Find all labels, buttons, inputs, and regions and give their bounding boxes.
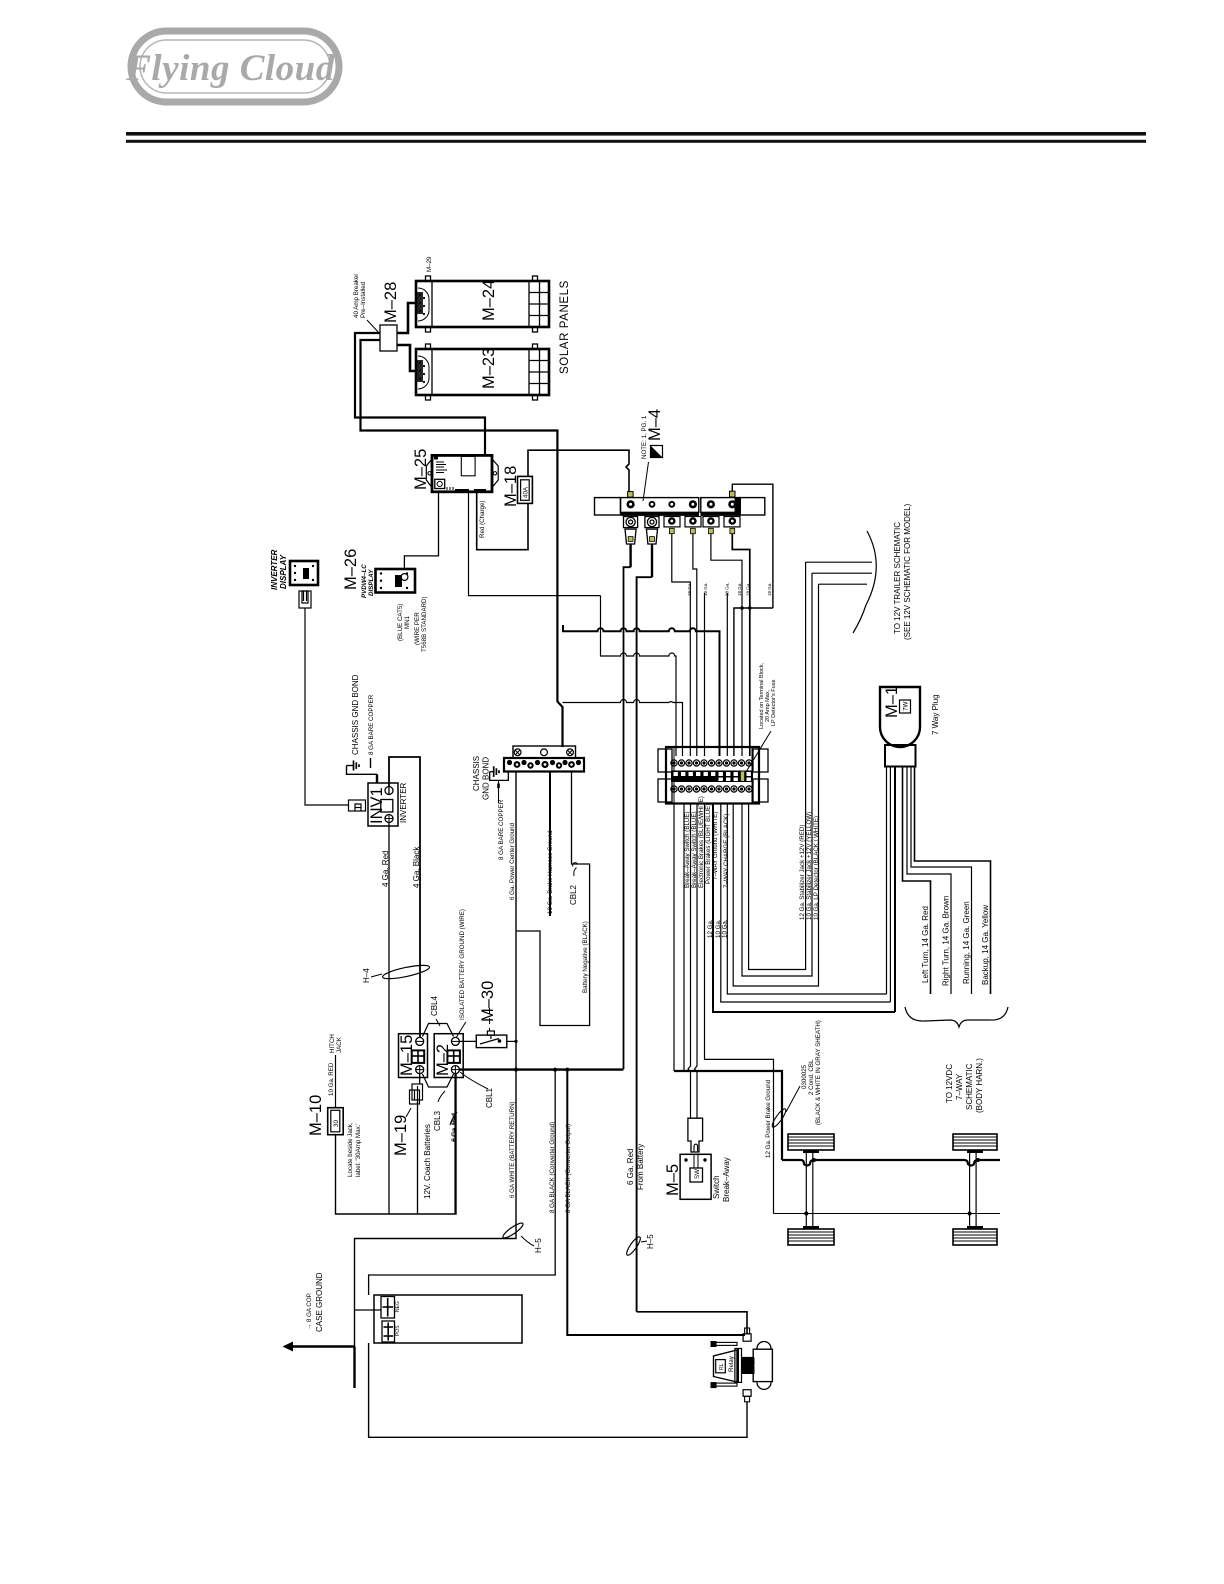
svg-text:Right Turn, 14 Ga. Brown: Right Turn, 14 Ga. Brown — [942, 896, 951, 986]
svg-text:M–19: M–19 — [392, 1115, 410, 1156]
small terminal below stud 4 — [685, 517, 701, 534]
label Locate beside Jack label 30Amp Max — [347, 1122, 362, 1177]
svg-text:Break–Away Switch (BLUE): Break–Away Switch (BLUE) — [691, 811, 698, 888]
wire col 727 to U3 — [727, 804, 886, 995]
wire breakaway pair right — [695, 804, 698, 1119]
label 0300025 2 Cond CBL — [786, 1020, 822, 1125]
wire brake ground thick — [674, 1071, 782, 1160]
wire stabilizer red to trailer — [806, 561, 872, 563]
svg-text:SCHEMATIC: SCHEMATIC — [965, 1063, 974, 1110]
svg-text:Left Turn, 14 Ga. Red: Left Turn, 14 Ga. Red — [921, 906, 930, 983]
wire 7way ground col — [705, 804, 774, 1214]
label Switch Break-Away — [712, 1157, 731, 1202]
svg-text:Pre–Installed: Pre–Installed — [360, 281, 367, 318]
svg-text:12 Ga. Stabilizer Jack +12V: 12 Ga. Stabilizer Jack +12V (RED) — [799, 825, 806, 920]
wire M-1 backup — [915, 767, 991, 995]
svg-text:4 Ga. Black: 4 Ga. Black — [412, 846, 421, 888]
wire stud6 up and over to right drop — [732, 484, 773, 608]
svg-text:M–26: M–26 — [342, 549, 360, 590]
label 6 Ga. Red From Battery — [626, 1144, 645, 1190]
wire INV1 positive 4ga red down — [388, 823, 390, 1215]
wire col 733 to U4 — [733, 584, 818, 986]
battery lug below stud 1 — [624, 517, 638, 545]
wire neg to return col — [355, 1309, 382, 1311]
svg-text:Battery Negative (BLACK): Battery Negative (BLACK) — [582, 921, 589, 993]
svg-text:CBL1: CBL1 — [485, 1087, 494, 1108]
svg-text:M–1: M–1 — [883, 686, 901, 718]
svg-text:CBL4: CBL4 — [430, 995, 439, 1016]
svg-text:CBL2: CBL2 — [569, 884, 578, 905]
svg-text:CHASSIS: CHASSIS — [472, 756, 481, 791]
svg-text:TO 12VDC: TO 12VDC — [945, 1064, 954, 1103]
junction dot brake bus left — [812, 1158, 816, 1162]
wire bus to chassis ground — [490, 771, 509, 781]
inverter display module — [290, 561, 318, 585]
chassis ground symbol left — [347, 761, 360, 771]
wire battery positive lug1 down — [629, 544, 631, 567]
wire M-25 display port to M-26 — [404, 492, 438, 569]
header rule top — [126, 132, 1146, 136]
wire M-15 neg down to M-19 to bottom run — [418, 1074, 420, 1214]
label PVDW4-LC DISPLAY — [361, 564, 375, 598]
disconnect switch M-30 — [476, 1031, 507, 1048]
solar panel M-23 — [416, 344, 549, 400]
leader M-4 to bus — [643, 462, 649, 501]
converter — [374, 1295, 522, 1343]
RJ connector inverter display — [299, 591, 311, 608]
svg-text:CBL3: CBL3 — [433, 1110, 442, 1131]
wire M-1 left turn — [903, 767, 931, 995]
breakaway switch M-5 — [680, 1154, 711, 1199]
wire M-28 to panel M-23 — [397, 345, 417, 371]
svg-text:Electronic Brakes (BLUE/WHITE: Electronic Brakes (BLUE/WHITE) — [698, 796, 705, 888]
svg-text:8 GA BARE COPPER: 8 GA BARE COPPER — [368, 694, 375, 755]
svg-text:HITCH: HITCH — [329, 1034, 336, 1053]
svg-text:→ 8 GA COP.: → 8 GA COP. — [306, 1292, 313, 1330]
small terminal below stud 6 — [724, 517, 740, 534]
wire stud5 step to col 742 — [711, 534, 742, 756]
svg-text:12V. Coach Batteries: 12V. Coach Batteries — [423, 1124, 432, 1199]
block fuse band — [671, 771, 753, 783]
label INVERTER DISPLAY — [270, 549, 288, 590]
svg-text:M–2: M–2 — [434, 1044, 452, 1076]
svg-text:Running, 14 Ga. Green: Running, 14 Ga. Green — [962, 901, 971, 984]
junction dot brake hot left — [804, 1212, 808, 1216]
svg-text:INVERTER: INVERTER — [270, 549, 279, 590]
breakaway plug — [688, 1118, 703, 1152]
svg-text:(BLACK & WHITE IN GRAY SHEATH): (BLACK & WHITE IN GRAY SHEATH) — [815, 1020, 822, 1125]
junction dot converter output col — [565, 1068, 569, 1072]
wheel rear right — [953, 1226, 997, 1245]
wheel front left — [788, 1134, 834, 1153]
svg-text:Relay: Relay — [728, 1355, 735, 1372]
wire tangle vertical to H2 — [601, 596, 677, 756]
svg-text:8 GA BLACK (Converter Outpu: 8 GA BLACK (Converter Output) — [565, 1124, 572, 1213]
svg-text:M–4: M–4 — [646, 409, 664, 441]
svg-text:MN1: MN1 — [404, 615, 411, 629]
battery M-15 — [399, 1034, 428, 1078]
svg-text:10 Ga. Stabilizer Jack +12V: 10 Ga. Stabilizer Jack +12V (YELLOW) — [806, 812, 813, 920]
svg-text:TO 12V TRAILER SCHEMATIC: TO 12V TRAILER SCHEMATIC — [893, 522, 902, 634]
note M-4 symbol — [651, 446, 663, 458]
block bottom screw row — [671, 786, 752, 792]
svg-text:18 Ga.: 18 Ga. — [703, 582, 708, 596]
svg-text:18 Ga.: 18 Ga. — [725, 582, 730, 596]
wire aux col 704.5 — [704, 593, 706, 756]
breaker M-28 — [380, 325, 397, 351]
svg-text:10 Ga.: 10 Ga. — [722, 919, 729, 938]
case ground wire — [292, 1347, 355, 1389]
wheel front right — [953, 1134, 997, 1153]
INV1 left plug — [349, 800, 366, 811]
wire tangle horizontal H1 — [563, 625, 720, 756]
display M-26 — [376, 569, 416, 593]
wire M-28 PV+ to M-25 — [355, 333, 485, 455]
junction dot brake bus right — [976, 1158, 980, 1162]
svg-text:POS: POS — [395, 1325, 401, 1336]
axle right — [970, 1153, 977, 1226]
svg-text:M–30: M–30 — [479, 981, 497, 1022]
wire aux col 727 — [726, 593, 728, 756]
svg-text:18 Ga.: 18 Ga. — [746, 582, 751, 596]
svg-text:DISPLAY: DISPLAY — [279, 554, 288, 589]
svg-text:2 Cond. CBL: 2 Cond. CBL — [808, 1059, 815, 1095]
svg-text:7–WAY CHARGE (BLACK): 7–WAY CHARGE (BLACK) — [723, 814, 730, 889]
brake ground bus thick — [782, 1160, 1000, 1166]
svg-text:18 Ga.: 18 Ga. — [767, 582, 772, 596]
svg-text:6 Ga. Red: 6 Ga. Red — [451, 1113, 458, 1142]
wire M-10 to battery bottom run — [336, 1074, 457, 1214]
wire battery negative CBL2 — [516, 772, 590, 1026]
block bottom screw dots — [672, 761, 750, 790]
wire M-1 running — [911, 767, 972, 994]
svg-text:H–5: H–5 — [534, 1238, 543, 1253]
wire M-1 pin left c — [894, 767, 896, 1013]
wire power center ground col — [355, 772, 517, 1389]
label TO 12V TRAILER SCHEMATIC — [893, 503, 912, 640]
wire lp detector to trailer — [819, 583, 868, 585]
small terminal below stud 3 — [664, 517, 680, 534]
brace 7-way harness — [905, 1007, 1008, 1027]
wire stabilizer yellow to trailer — [812, 572, 872, 574]
wire stud4 step down — [693, 534, 697, 756]
wire battery feed to relay — [637, 1312, 747, 1334]
leader M-30 — [489, 1008, 491, 1031]
wire M-1 pin left b — [889, 767, 891, 1003]
svg-text:18 Ga.: 18 Ga. — [737, 582, 742, 596]
wire INV1 negative up over to 4ga black — [389, 757, 420, 1037]
svg-text:LP Detector's Fuse: LP Detector's Fuse — [771, 680, 777, 727]
svg-text:7 Way Plug: 7 Way Plug — [931, 694, 940, 735]
svg-text:H–4: H–4 — [362, 968, 371, 983]
wire M-1 pin left a — [886, 767, 888, 995]
svg-text:M–28: M–28 — [382, 282, 400, 323]
junction dot M-30 ground col — [514, 1040, 517, 1043]
svg-text:(SEE 12V SCHEMATIC FOR MODEL): (SEE 12V SCHEMATIC FOR MODEL) — [903, 503, 912, 640]
wire chassis gnd to INV1 — [347, 766, 378, 775]
svg-text:M–23: M–23 — [480, 348, 498, 389]
harness H-5 on battery feed — [625, 1235, 643, 1257]
svg-text:7–WAY: 7–WAY — [955, 1073, 964, 1100]
wire M-18 to bus stud 1 — [528, 450, 629, 491]
wire col 720 to U2 — [721, 804, 891, 1003]
wire col 742 to U5 — [742, 573, 812, 976]
svg-text:label: '30Amp Max.': label: '30Amp Max.' — [355, 1123, 362, 1177]
svg-text:M–24: M–24 — [480, 280, 498, 321]
svg-text:PVDW4–LC: PVDW4–LC — [361, 564, 368, 598]
ring terminal above stud 1 — [628, 492, 634, 498]
wire col 749 to U6 — [749, 562, 806, 970]
svg-text:From Battery: From Battery — [636, 1144, 645, 1190]
svg-text:6 GA WHITE (BATTERY RETURN): 6 GA WHITE (BATTERY RETURN) — [509, 1101, 516, 1198]
svg-text:M–29: M–29 — [426, 256, 433, 272]
brace to trailer schematic — [853, 531, 876, 633]
svg-text:M–18: M–18 — [502, 466, 520, 507]
junction dot brake hot right — [968, 1212, 972, 1216]
svg-text:INVERTER: INVERTER — [399, 782, 408, 823]
wire M-25 aux pin down — [469, 492, 601, 596]
header rule bottom — [126, 140, 1146, 143]
svg-text:T568B STANDARD): T568B STANDARD) — [421, 596, 428, 652]
12V bus bar — [595, 498, 765, 516]
wire 7way charge col thick — [713, 804, 895, 1013]
svg-text:GND BOND: GND BOND — [482, 757, 491, 800]
junction dot col749 — [748, 606, 752, 610]
wire battery feed lug2 down — [651, 544, 653, 577]
junction dot col742 — [740, 606, 744, 610]
terminal block — [658, 747, 768, 804]
label TO 12VDC 7-WAY SCHEMATIC (BODY HARN.) — [945, 1058, 984, 1113]
wire M-1 right turn — [907, 767, 951, 994]
solar charge controller M-25 — [426, 455, 498, 492]
cable CBL4 arc — [423, 1024, 454, 1037]
label CHASSIS GND BOND at bus — [472, 756, 491, 800]
svg-text:NEG: NEG — [395, 1301, 401, 1312]
svg-text:10 Ga. LP Detector (BLACK /: 10 Ga. LP Detector (BLACK / WHITE) — [813, 816, 820, 920]
Flying Cloud logo — [125, 31, 340, 102]
axle left — [806, 1153, 813, 1226]
junction dot converter ground col — [553, 1068, 557, 1072]
relay — [711, 1328, 772, 1402]
wire M-2 positive CBL1 — [459, 1068, 623, 1070]
pigtail curl CBL2 — [573, 863, 578, 867]
svg-text:ISOLATED BATTERY GROUND (WIRE): ISOLATED BATTERY GROUND (WIRE) — [459, 909, 466, 1020]
wire tangle horizontal H3 — [563, 700, 683, 757]
wire inverter display to INV1 — [305, 608, 348, 805]
wire block col 674 down — [673, 804, 675, 1072]
case ground arrow — [283, 1342, 294, 1352]
svg-text:6 Ga. Power Center Ground: 6 Ga. Power Center Ground — [509, 822, 516, 900]
wire M-25 charge out through fuse M-18 — [477, 492, 528, 550]
inverter INV1 — [368, 783, 398, 826]
ground bus screw row — [507, 760, 581, 769]
battery lug below stud 2 — [645, 517, 659, 545]
svg-text:Flying Cloud.: Flying Cloud. — [125, 48, 340, 89]
svg-text:12 Ga.: 12 Ga. — [707, 919, 714, 938]
svg-text:M–10: M–10 — [307, 1095, 325, 1136]
svg-text:0300025: 0300025 — [801, 1064, 808, 1089]
label 40 Amp Breaker Pre-Installed — [353, 274, 380, 334]
battery M-2 — [434, 1034, 463, 1078]
wire brake harness ground stub — [549, 772, 551, 917]
fuse M-19 — [410, 1084, 423, 1104]
svg-text:10 Ga. RED: 10 Ga. RED — [328, 1062, 335, 1096]
chassis ground symbol at bus — [490, 766, 499, 777]
svg-text:4 Ga. Red: 4 Ga. Red — [381, 851, 390, 887]
svg-text:40A: 40A — [523, 486, 530, 498]
harness H-5 on white return — [501, 1221, 524, 1240]
svg-text:M–15: M–15 — [398, 1035, 416, 1076]
svg-text:(BLUE CAT5): (BLUE CAT5) — [397, 604, 404, 641]
svg-text:JACK: JACK — [336, 1036, 343, 1053]
wire M-2 neg to M-30 — [459, 1040, 476, 1042]
fuse M-18 40A — [518, 476, 533, 503]
wire converter ground col — [369, 1068, 556, 1295]
junction dot CBL1 ground col — [514, 1068, 518, 1072]
svg-text:12 Ga. Power Brake Ground: 12 Ga. Power Brake Ground — [765, 1079, 772, 1158]
svg-text:M–5: M–5 — [664, 1164, 682, 1196]
svg-text:Red (Charge): Red (Charge) — [479, 501, 486, 539]
cable CBL3 arc — [423, 1074, 454, 1087]
wire stud6 step to col 749 — [732, 534, 750, 756]
wire block col 684 down — [683, 804, 685, 1072]
ground bus bar — [504, 746, 584, 772]
svg-text:SW: SW — [694, 1169, 701, 1179]
svg-text:Backup, 14 Ga. Yellow: Backup, 14 Ga. Yellow — [981, 905, 990, 985]
harness H-4 ellipse — [382, 963, 431, 982]
svg-text:8 GA BLACK (Converter Groun: 8 GA BLACK (Converter Ground) — [549, 1122, 556, 1213]
svg-text:18 Ga.: 18 Ga. — [687, 582, 692, 596]
svg-text:NOTE: 1, PG. 1: NOTE: 1, PG. 1 — [641, 415, 648, 459]
svg-text:INV1: INV1 — [368, 787, 386, 824]
ring terminal above stud 6 — [730, 491, 736, 497]
wheel rear left — [788, 1226, 834, 1245]
svg-text:CHASSIS GND BOND: CHASSIS GND BOND — [351, 674, 360, 755]
wire col 734 from LP feed — [734, 608, 773, 756]
wire stud3 step to breakaway col — [672, 534, 691, 756]
svg-text:10 Ga. Brake Harness Ground: 10 Ga. Brake Harness Ground — [547, 830, 554, 914]
svg-text:SOLAR PANELS: SOLAR PANELS — [559, 280, 571, 374]
wire converter output col — [567, 1068, 745, 1335]
sheath ellipse 0300025 — [770, 1107, 788, 1128]
svg-text:7W: 7W — [903, 702, 910, 711]
wire hitch jack to M-10 — [335, 1055, 337, 1108]
label HITCH JACK — [329, 1034, 343, 1053]
svg-text:Power Brakes (LIGHT BLUE): Power Brakes (LIGHT BLUE) — [705, 804, 712, 884]
svg-text:6 Ga. Red: 6 Ga. Red — [626, 1149, 635, 1185]
svg-text:Locate beside Jack,: Locate beside Jack, — [347, 1122, 354, 1177]
svg-text:Switch: Switch — [712, 1175, 721, 1199]
svg-text:40 Amp Breaker: 40 Amp Breaker — [353, 274, 360, 318]
svg-text:7–WAY Ground (WHITE): 7–WAY Ground (WHITE) — [712, 812, 719, 880]
block top screw row — [671, 760, 752, 766]
svg-text:Break–Away Switch (BLUE): Break–Away Switch (BLUE) — [684, 811, 691, 888]
svg-text:RL: RL — [719, 1363, 725, 1370]
svg-text:CASE GROUND: CASE GROUND — [315, 1272, 324, 1332]
wire breakaway pair left — [688, 804, 691, 1119]
wire relay out bottom loop — [369, 1343, 747, 1437]
brake hot line thin — [774, 1213, 1001, 1215]
bus studs — [627, 500, 737, 508]
label (BLUE CAT5) MN1 (WIRE PER T568B STANDARD) — [397, 596, 428, 652]
small terminal below stud 5 — [703, 517, 719, 534]
svg-text:M–25: M–25 — [412, 449, 430, 490]
svg-text:DISPLAY: DISPLAY — [368, 569, 375, 596]
svg-text:Break–Away: Break–Away — [722, 1157, 731, 1202]
7-way plug M-1 — [880, 687, 920, 767]
tick 8ga copper left — [370, 758, 372, 768]
svg-text:8 GA BARE COPPER: 8 GA BARE COPPER — [498, 799, 505, 860]
wire M-28 PV- down bus — [361, 340, 563, 747]
breaker M-10 — [328, 1108, 344, 1135]
wire M-2 positive drop — [454, 1074, 456, 1214]
wire M-30 to ground col — [507, 1040, 516, 1042]
svg-text:30: 30 — [333, 1120, 340, 1127]
svg-text:(BODY HARN.): (BODY HARN.) — [975, 1058, 984, 1113]
svg-text:H–5: H–5 — [646, 1234, 655, 1249]
label Located on Terminal Block 20 Amp Max LP Detector Fuse — [746, 663, 777, 772]
label 8 GA COP CASE GROUND — [306, 1272, 324, 1332]
svg-text:(WIRE PER: (WIRE PER — [414, 612, 421, 645]
wire M-28 to panel M-24 — [397, 303, 417, 333]
solar panel M-24 — [416, 276, 549, 332]
